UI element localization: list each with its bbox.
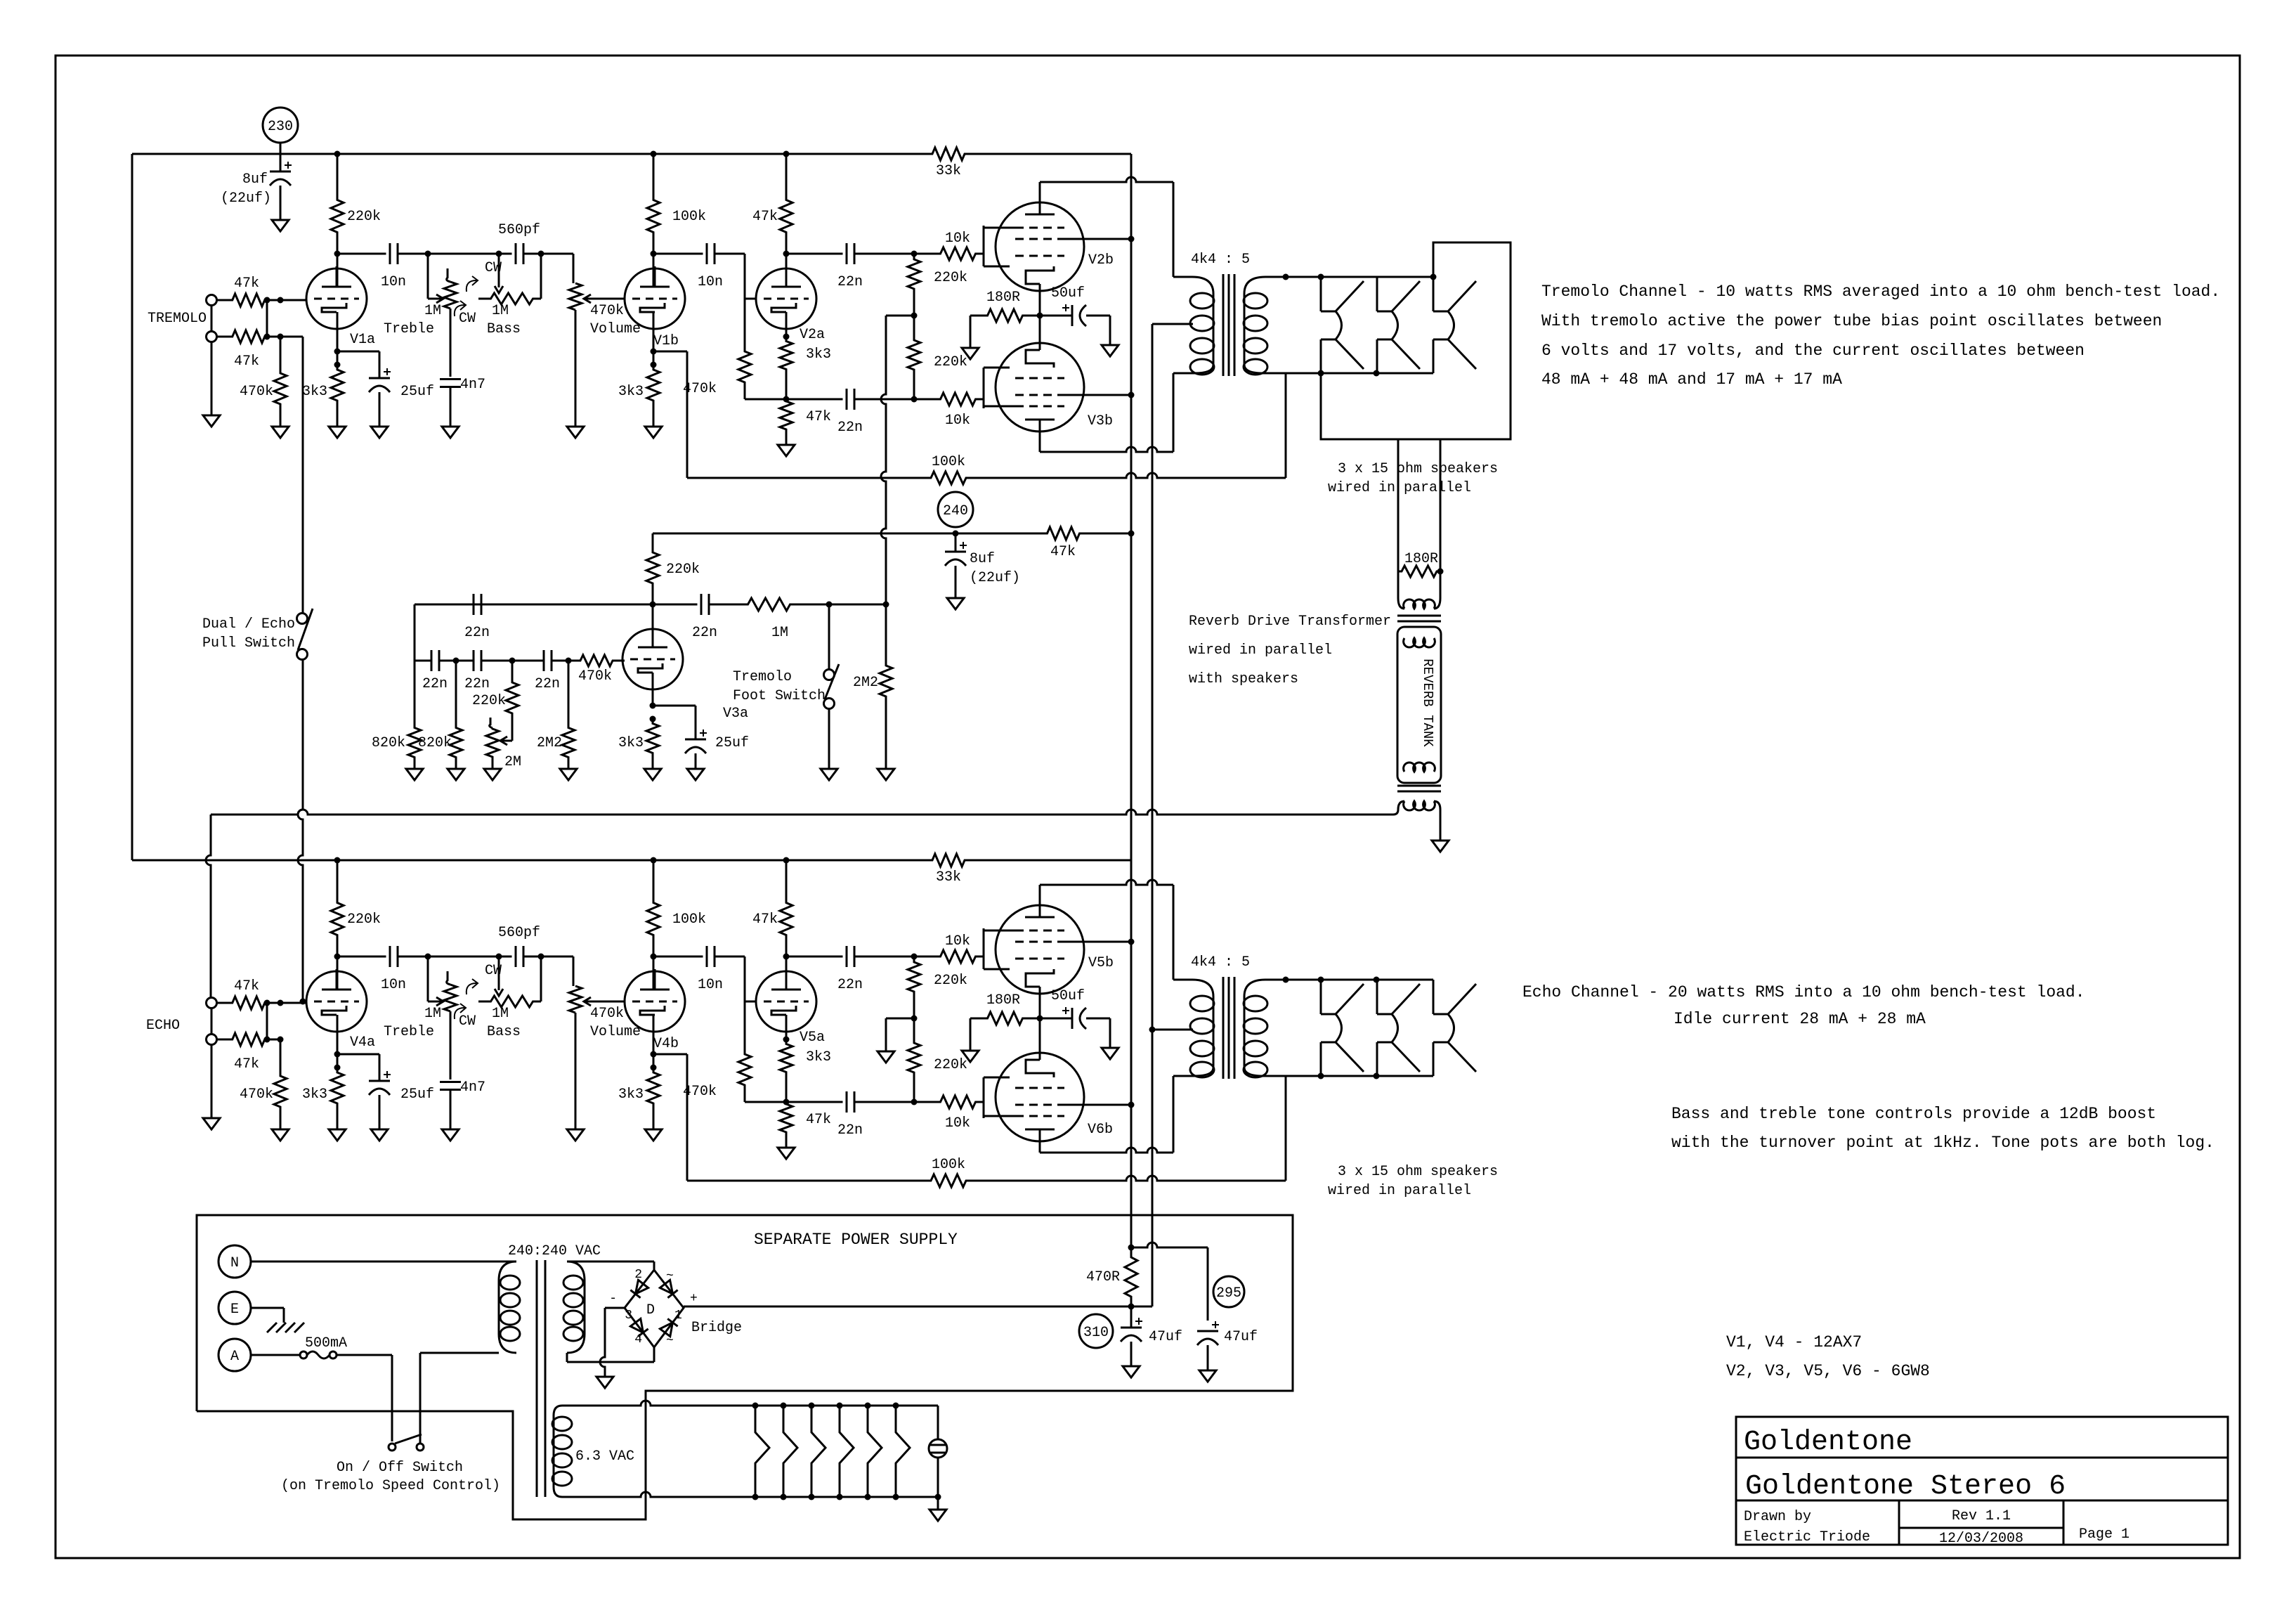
resistor 470k grid leak bbox=[280, 337, 282, 372]
resistor 220k lower bias bbox=[908, 316, 920, 399]
resistor 100k plate bbox=[653, 154, 655, 193]
wire V2a plate bbox=[785, 956, 788, 990]
svg-text:25uf: 25uf bbox=[400, 1087, 434, 1103]
node 295 bbox=[1213, 1276, 1244, 1307]
wire rail bbox=[132, 153, 786, 155]
resistor 10k lower bbox=[939, 1096, 977, 1108]
capacitor 47uf first bbox=[1130, 1306, 1133, 1328]
svg-text:Idle current 28 mA + 28 mA: Idle current 28 mA + 28 mA bbox=[1674, 1010, 1926, 1028]
svg-text:SEPARATE POWER SUPPLY: SEPARATE POWER SUPPLY bbox=[754, 1231, 958, 1249]
capacitor 22n lower bbox=[846, 389, 848, 410]
resistor 47k dropper bbox=[1026, 527, 1101, 540]
ground V1b cathode bbox=[645, 1129, 662, 1141]
svg-text:560pf: 560pf bbox=[498, 925, 540, 941]
resistor 220k lower bias bbox=[908, 1018, 920, 1102]
svg-text:V4b: V4b bbox=[653, 1036, 679, 1052]
node 240 bbox=[938, 492, 973, 527]
wire screen supply rail vertical x=1610 bbox=[1130, 154, 1133, 1247]
wire cap to tone bbox=[398, 956, 428, 958]
capacitor 22n osc right bbox=[653, 604, 698, 606]
svg-text:470R: 470R bbox=[1086, 1269, 1120, 1285]
svg-text:3 x 15 ohm speakers: 3 x 15 ohm speakers bbox=[1338, 461, 1498, 477]
wire volume wiper to grid bbox=[584, 298, 625, 300]
capacitor 4n7 bbox=[440, 1081, 461, 1083]
ground jack column bbox=[203, 415, 220, 427]
svg-text:470k: 470k bbox=[590, 303, 624, 319]
ground 25uf bbox=[371, 1129, 388, 1141]
wire grid feed bbox=[280, 1002, 306, 1004]
svg-text:47k: 47k bbox=[806, 409, 831, 425]
ground volume bbox=[567, 1129, 584, 1141]
ground 4n7 bbox=[442, 427, 459, 438]
wire bass right leg bbox=[540, 254, 542, 299]
resistor 220k V3a plate bbox=[652, 533, 654, 550]
potentiometer 470k Volume bbox=[569, 283, 582, 310]
svg-text:Bass: Bass bbox=[487, 1024, 521, 1040]
wire upper plate to transformer bbox=[1039, 885, 1041, 905]
resistor 33k rail bbox=[786, 854, 1131, 867]
wire primary centre tap bbox=[1152, 1029, 1193, 1031]
svg-text:V4a: V4a bbox=[350, 1034, 375, 1051]
svg-text:(22uf): (22uf) bbox=[221, 190, 271, 207]
wire plate V4a to cap bbox=[337, 956, 339, 990]
triode V2a bbox=[756, 268, 816, 329]
capacitor 4n7 bbox=[440, 378, 461, 380]
svg-text:220k: 220k bbox=[934, 270, 967, 286]
wire plate Vb bbox=[653, 254, 655, 287]
wire lower plate to transformer bbox=[1039, 432, 1041, 452]
ground V1a cathode bbox=[329, 427, 346, 438]
svg-text:820k: 820k bbox=[372, 735, 405, 751]
svg-text:180R: 180R bbox=[986, 290, 1020, 306]
triode V1b bbox=[625, 268, 685, 329]
svg-text:10n: 10n bbox=[698, 274, 723, 290]
svg-text:V2a: V2a bbox=[800, 327, 825, 343]
junction V3a plate bbox=[650, 602, 656, 608]
svg-text:10k: 10k bbox=[945, 413, 970, 429]
svg-text:~: ~ bbox=[666, 1334, 674, 1348]
transformer mains secondary bbox=[567, 1261, 585, 1280]
wire N to transformer bbox=[251, 1261, 516, 1263]
wire NFB to speaker rail bbox=[1285, 1076, 1287, 1181]
wire treble wiper feed bbox=[427, 956, 429, 1001]
svg-text:2M2: 2M2 bbox=[537, 735, 562, 751]
capacitor 8uf (22uf) second filter bbox=[955, 533, 957, 552]
ground 3k3 V3a bbox=[644, 769, 661, 780]
ground 820k 1 bbox=[406, 769, 423, 780]
resistor 47k input b bbox=[217, 1033, 281, 1046]
resistor 220k upper bias bbox=[908, 956, 920, 1018]
potentiometer 470k Volume bbox=[569, 986, 582, 1013]
svg-text:Foot Switch: Foot Switch bbox=[733, 688, 826, 704]
wire tone top row bbox=[428, 956, 499, 958]
svg-text:47k: 47k bbox=[234, 275, 259, 292]
resistor 220k upper bias bbox=[908, 254, 920, 316]
wire bridge minus to ground bbox=[605, 1307, 625, 1309]
svg-text:Tremolo: Tremolo bbox=[733, 669, 792, 685]
resistor 470R dropper bbox=[1125, 1247, 1137, 1306]
resistor 220k osc bbox=[506, 682, 518, 714]
transformer 4k4:5 secondary bbox=[1244, 277, 1286, 294]
potentiometer 1M Bass bbox=[498, 254, 500, 287]
junction bias node bbox=[911, 313, 918, 319]
triode V1a bbox=[306, 268, 367, 329]
potentiometer 2M speed bbox=[490, 718, 493, 728]
wire echo speaker top rail bbox=[1286, 979, 1433, 981]
svg-text:220k: 220k bbox=[934, 1057, 967, 1073]
ground 4n7 bbox=[442, 1129, 459, 1141]
wire tremolo speaker top rail bbox=[1286, 276, 1433, 278]
svg-text:Dual / Echo: Dual / Echo bbox=[202, 616, 295, 633]
wire input join bbox=[266, 300, 268, 337]
resistor 220k plate V4a bbox=[337, 860, 339, 896]
resistor 10k lower bbox=[939, 393, 977, 406]
capacitor 25uf cathode bypass bbox=[337, 1053, 379, 1056]
reverb transformer core bbox=[1397, 615, 1441, 617]
wire bass right leg bbox=[540, 956, 542, 1001]
speaker tremolo 3 bbox=[1433, 277, 1435, 311]
svg-text:220k: 220k bbox=[347, 912, 381, 928]
svg-text:Goldentone Stereo 6: Goldentone Stereo 6 bbox=[1745, 1471, 2066, 1503]
wire upper pentode grid bbox=[977, 956, 984, 958]
wire 295 feed bbox=[1131, 1243, 1208, 1247]
potentiometer 1M Treble bbox=[447, 268, 450, 282]
svg-text:V2, V3, V5, V6 - 6GW8: V2, V3, V5, V6 - 6GW8 bbox=[1726, 1362, 1930, 1380]
svg-text:4n7: 4n7 bbox=[460, 1079, 485, 1096]
ECHO input jack J4b bbox=[207, 1034, 217, 1045]
wire NFB to speaker rail bbox=[1285, 373, 1287, 478]
svg-text:22n: 22n bbox=[422, 676, 448, 692]
triode V5a bbox=[756, 971, 816, 1032]
svg-text:2: 2 bbox=[634, 1268, 642, 1282]
capacitor 50uf cathode bypass bbox=[1040, 315, 1072, 317]
svg-text:Rev 1.1: Rev 1.1 bbox=[1952, 1508, 2011, 1524]
svg-text:470k: 470k bbox=[590, 1006, 624, 1022]
ground 25uf bbox=[371, 427, 388, 438]
capacitor 25uf cathode bypass bbox=[337, 351, 379, 353]
svg-text:Bridge: Bridge bbox=[691, 1320, 742, 1336]
svg-text:On / Off Switch: On / Off Switch bbox=[337, 1460, 463, 1476]
resistor 47k plate V2a bbox=[785, 154, 788, 193]
wire plate V1a to cap bbox=[337, 254, 339, 287]
svg-text:TREMOLO: TREMOLO bbox=[148, 311, 207, 327]
svg-text:100k: 100k bbox=[932, 1157, 965, 1173]
wire to output tube grid bbox=[977, 253, 984, 255]
cathode bias node bbox=[1037, 1016, 1043, 1022]
svg-text:3k3: 3k3 bbox=[618, 384, 644, 400]
transformer 4k4:5 secondary bbox=[1244, 980, 1286, 997]
wire switch to primary bbox=[419, 1353, 422, 1444]
ground volume bbox=[567, 427, 584, 438]
resistor 47k V2a tail bbox=[780, 1102, 792, 1134]
svg-text:8uf: 8uf bbox=[242, 171, 268, 188]
ground V1a cathode bbox=[329, 1129, 346, 1141]
TREMOLO input jack J1b bbox=[207, 332, 217, 342]
svg-text:47k: 47k bbox=[234, 978, 259, 994]
ground foot switch bbox=[821, 769, 837, 780]
wire V3a plate node bbox=[652, 604, 654, 647]
resistor 47k input a bbox=[217, 294, 281, 306]
svg-text:10k: 10k bbox=[945, 231, 970, 247]
svg-text:Echo Channel - 20 watts RMS i: Echo Channel - 20 watts RMS into a 10 oh… bbox=[1522, 983, 2085, 1001]
svg-text:3k3: 3k3 bbox=[302, 384, 327, 400]
terminal A bbox=[218, 1339, 251, 1371]
transformer core bbox=[1222, 274, 1225, 376]
node 230 bbox=[263, 108, 298, 143]
svg-text:180R: 180R bbox=[986, 992, 1020, 1008]
ground V1b cathode bbox=[645, 427, 662, 438]
wire input join bbox=[266, 1003, 268, 1039]
wire NFB takeoff bbox=[653, 1053, 687, 1056]
resistor 47k plate V2a bbox=[785, 860, 788, 896]
svg-text:10k: 10k bbox=[945, 933, 970, 949]
junction dots input bbox=[264, 1000, 270, 1006]
svg-text:CW: CW bbox=[485, 963, 502, 979]
wire left B+ drop to echo rail bbox=[131, 154, 133, 860]
wire lower row bbox=[745, 398, 786, 401]
capacitor 22n osc top bbox=[470, 604, 653, 606]
svg-text:Tremolo Channel - 10 watts RMS: Tremolo Channel - 10 watts RMS averaged … bbox=[1541, 283, 2220, 301]
ground V2a tail bbox=[778, 1148, 795, 1159]
svg-text:500mA: 500mA bbox=[305, 1335, 347, 1351]
switch On/Off bbox=[389, 1444, 396, 1451]
svg-text:V6b: V6b bbox=[1088, 1122, 1113, 1138]
svg-text:310: 310 bbox=[1083, 1325, 1109, 1341]
resistor 10k upper bbox=[939, 247, 977, 260]
capacitor 10n coupling a bbox=[389, 243, 391, 264]
resistor 470k grid leak bbox=[280, 1039, 282, 1075]
potentiometer 1M Treble bbox=[447, 971, 450, 985]
resistor 47k V2a tail bbox=[780, 399, 792, 432]
svg-text:47k: 47k bbox=[234, 1056, 259, 1072]
heater elements bbox=[755, 1406, 769, 1497]
svg-text:Treble: Treble bbox=[384, 1024, 434, 1040]
svg-text:47k: 47k bbox=[1050, 544, 1076, 560]
svg-text:~: ~ bbox=[666, 1269, 674, 1283]
svg-text:1M: 1M bbox=[492, 1006, 509, 1022]
svg-text:Drawn by: Drawn by bbox=[1744, 1509, 1811, 1525]
wire lower row right bbox=[854, 398, 939, 401]
svg-text:220k: 220k bbox=[934, 354, 967, 370]
svg-text:12/03/2008: 12/03/2008 bbox=[1939, 1531, 2023, 1547]
svg-text:820k: 820k bbox=[418, 735, 452, 751]
V2a cathode network bbox=[783, 1037, 790, 1043]
triode V3a oscillator bbox=[622, 629, 683, 689]
resistor 10k upper bbox=[939, 950, 977, 963]
ground 47uf second bbox=[1199, 1370, 1216, 1382]
svg-text:CW: CW bbox=[459, 311, 476, 327]
ground reverb bbox=[1432, 841, 1449, 852]
svg-text:470k: 470k bbox=[578, 668, 612, 685]
terminal N bbox=[218, 1245, 251, 1278]
capacitor 560pf bbox=[499, 253, 512, 255]
svg-text:6 volts and 17 volts, and the: 6 volts and 17 volts, and the current os… bbox=[1541, 342, 2085, 360]
wire upper pentode grid bbox=[977, 253, 984, 255]
svg-text:REVERB TANK: REVERB TANK bbox=[1420, 659, 1435, 747]
svg-text:25uf: 25uf bbox=[715, 735, 749, 751]
ground 2M2 out bbox=[878, 769, 894, 780]
svg-text:10n: 10n bbox=[381, 977, 406, 993]
wire grid feed bbox=[280, 299, 306, 301]
capacitor 25uf V3a bbox=[695, 706, 697, 739]
svg-text:3 x 15 ohm speakers: 3 x 15 ohm speakers bbox=[1338, 1164, 1498, 1180]
cathode bias node bbox=[1037, 313, 1043, 319]
svg-text:22n: 22n bbox=[837, 274, 863, 290]
svg-text:CW: CW bbox=[459, 1013, 476, 1030]
ground 2M2 osc bbox=[560, 769, 577, 780]
wire reverb return to echo input bbox=[1393, 810, 1398, 815]
wire lower pentode grid bbox=[983, 378, 985, 399]
resistor 180R cathode bbox=[970, 309, 1040, 322]
wire jack column bbox=[211, 306, 213, 332]
svg-text:47uf: 47uf bbox=[1149, 1329, 1182, 1345]
wire to pull switch bbox=[280, 336, 303, 338]
speaker tremolo 2 bbox=[1376, 277, 1378, 311]
svg-text:(on Tremolo Speed Control): (on Tremolo Speed Control) bbox=[281, 1478, 500, 1494]
svg-text:180R: 180R bbox=[1404, 551, 1438, 567]
svg-text:with the turnover point at 1kH: with the turnover point at 1kHz. Tone po… bbox=[1671, 1134, 2215, 1152]
TREMOLO input jack J1a bbox=[207, 295, 217, 306]
wire to 10k upper bbox=[854, 956, 939, 958]
svg-text:47uf: 47uf bbox=[1224, 1329, 1258, 1345]
svg-text:V3b: V3b bbox=[1088, 413, 1113, 429]
resistor 220k plate V1a bbox=[337, 154, 339, 193]
svg-text:+: + bbox=[690, 1292, 698, 1306]
ground 25uf V3a bbox=[687, 769, 704, 780]
transformer 4k4:5 primary bbox=[1173, 980, 1213, 997]
resistor 47k input b bbox=[217, 330, 281, 343]
svg-text:25uf: 25uf bbox=[400, 384, 434, 400]
svg-text:2M2: 2M2 bbox=[853, 675, 878, 691]
capacitor 22n osc 3 bbox=[543, 650, 545, 671]
svg-text:22n: 22n bbox=[837, 1122, 863, 1139]
svg-text:with speakers: with speakers bbox=[1189, 671, 1298, 687]
resistor 1M osc out bbox=[709, 598, 829, 611]
speaker echo 1 bbox=[1320, 980, 1322, 1014]
ground jack column bbox=[203, 1118, 220, 1129]
V3a cathode network bbox=[652, 673, 654, 706]
svg-text:47k: 47k bbox=[752, 912, 778, 928]
svg-text:22n: 22n bbox=[692, 625, 717, 641]
junction plate node bbox=[334, 857, 341, 864]
capacitor 22n osc 1 bbox=[431, 650, 433, 671]
transformer 6.3VAC winding bbox=[554, 1406, 636, 1415]
V1b cathode network bbox=[651, 349, 657, 355]
svg-text:CW: CW bbox=[485, 260, 502, 276]
resistor 180R reverb bbox=[1398, 566, 1440, 577]
svg-text:Volume: Volume bbox=[590, 1024, 641, 1040]
svg-text:Reverb Drive Transformer: Reverb Drive Transformer bbox=[1189, 614, 1391, 630]
svg-text:2M: 2M bbox=[504, 754, 521, 770]
resistor 3k3 V3a bbox=[646, 719, 659, 758]
wire reverb takeoff right bbox=[1440, 439, 1442, 571]
node 310 bbox=[1079, 1314, 1113, 1348]
title block bbox=[1736, 1417, 2228, 1545]
resistor 180R cathode bbox=[970, 1012, 1040, 1025]
svg-text:100k: 100k bbox=[932, 454, 965, 470]
wire secondary to bridge bbox=[567, 1261, 654, 1263]
transformer reverb drive primary bbox=[1397, 571, 1400, 598]
svg-text:220k: 220k bbox=[347, 209, 381, 225]
svg-text:Volume: Volume bbox=[590, 321, 641, 337]
wire tone top row bbox=[428, 253, 499, 255]
svg-text:100k: 100k bbox=[672, 209, 706, 225]
wire echo speaker bottom rail bbox=[1286, 1075, 1433, 1077]
ground second filter bbox=[947, 598, 964, 609]
resistor 33k rail bbox=[786, 148, 1131, 160]
wire bridge plus to B+ bbox=[684, 1306, 1152, 1308]
svg-text:47k: 47k bbox=[752, 209, 778, 225]
transformer mains primary bbox=[499, 1261, 516, 1280]
resistor 820k osc 2 bbox=[455, 661, 457, 727]
wire bias node to oscillator bbox=[886, 315, 914, 317]
resistor 2M2 osc out bbox=[885, 604, 887, 662]
ground 470k bbox=[272, 427, 289, 438]
svg-text:4: 4 bbox=[634, 1332, 642, 1347]
triode V4b bbox=[625, 971, 685, 1032]
wire to 10k upper bbox=[854, 253, 939, 255]
capacitor 10n coupling a bbox=[389, 946, 391, 967]
ECHO input jack J4a bbox=[207, 998, 217, 1008]
capacitor 560pf bbox=[499, 956, 512, 958]
capacitor 22n osc 2 bbox=[473, 650, 475, 671]
wire lower pentode grid bbox=[983, 1088, 985, 1102]
svg-text:3: 3 bbox=[625, 1309, 632, 1323]
svg-text:V1a: V1a bbox=[350, 332, 375, 348]
wire bias node stub bbox=[886, 1018, 914, 1020]
bridge diodes bbox=[635, 1280, 648, 1294]
svg-text:V1, V4 - 12AX7: V1, V4 - 12AX7 bbox=[1726, 1333, 1862, 1351]
svg-text:22n: 22n bbox=[837, 977, 863, 993]
ground bridge bbox=[596, 1377, 613, 1388]
wire E to chassis ground bbox=[251, 1307, 284, 1309]
svg-text:Electric Triode: Electric Triode bbox=[1744, 1529, 1870, 1545]
pentode V2b bbox=[996, 202, 1084, 291]
switch Dual/Echo pull bbox=[297, 614, 308, 624]
wire to output tube grid bbox=[977, 956, 984, 958]
capacitor 22n lower bbox=[846, 1091, 848, 1113]
svg-text:50uf: 50uf bbox=[1051, 285, 1085, 301]
speaker echo 2 bbox=[1376, 980, 1378, 1014]
resistor 820k osc 1 bbox=[414, 661, 416, 727]
svg-text:22n: 22n bbox=[535, 676, 560, 692]
pentode V3b bbox=[996, 343, 1084, 432]
svg-text:220k: 220k bbox=[934, 973, 967, 989]
svg-text:ECHO: ECHO bbox=[146, 1018, 180, 1034]
svg-text:33k: 33k bbox=[936, 163, 961, 179]
ground 50uf bbox=[1102, 1048, 1118, 1059]
svg-text:240:240 VAC: 240:240 VAC bbox=[508, 1243, 601, 1259]
capacitor 10n coupling b bbox=[706, 243, 708, 264]
svg-text:47k: 47k bbox=[234, 354, 259, 370]
svg-text:1M: 1M bbox=[424, 303, 441, 319]
svg-text:295: 295 bbox=[1216, 1285, 1241, 1302]
svg-text:4k4 : 5: 4k4 : 5 bbox=[1191, 252, 1250, 268]
speaker tremolo 1 bbox=[1320, 277, 1322, 311]
wire plate B+ rail vertical x=1640 bbox=[1152, 324, 1154, 1306]
capacitor 10n coupling b bbox=[706, 946, 708, 967]
wire cap to tone bbox=[398, 253, 428, 255]
wire lower plate to transformer bbox=[1039, 1141, 1041, 1153]
junction dots input bbox=[264, 297, 270, 304]
svg-text:100k: 100k bbox=[672, 912, 706, 928]
svg-text:220k: 220k bbox=[472, 693, 506, 709]
pentode V6b bbox=[996, 1053, 1084, 1141]
V1b cathode network bbox=[651, 1051, 657, 1058]
ground 50uf bbox=[1102, 345, 1118, 356]
wire plate Vb bbox=[653, 956, 655, 990]
ground 180R bbox=[962, 348, 979, 359]
